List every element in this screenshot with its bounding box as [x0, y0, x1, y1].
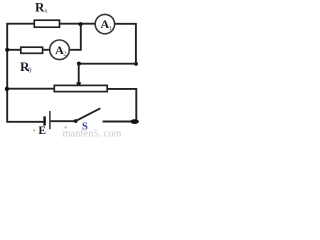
watermark speck left: [33, 129, 35, 131]
wire: wiper vertical drop: [78, 64, 80, 84]
resistor Rx: [34, 20, 59, 27]
node: bottom-right blob junction: [130, 119, 139, 124]
node: wiper corner junction: [77, 62, 81, 66]
watermark speck mid: [64, 126, 66, 128]
ammeter A1: [95, 14, 114, 33]
svg-text:x: x: [44, 7, 48, 14]
label Rx: [35, 0, 48, 14]
rheostat R (slide resistor): [54, 85, 107, 91]
svg-text:E: E: [38, 125, 46, 137]
switch S: [74, 108, 101, 123]
wire: rheostat right terminal to right rail down to battery node: [107, 89, 136, 122]
node: left rail at R0 branch: [5, 48, 9, 52]
svg-text:manfen5. com: manfen5. com: [63, 128, 122, 138]
node: junction on top wire: [79, 22, 83, 26]
resistor R0: [21, 47, 43, 53]
wire: battery to switch: [51, 120, 74, 122]
wire: branch down from junction to ammeter A2: [69, 24, 81, 50]
label R0: [20, 59, 32, 75]
ammeter A2: [50, 40, 70, 60]
battery E plates: [45, 111, 50, 129]
rheostat wiper arrowhead: [76, 82, 81, 87]
wire: R0 to A2: [43, 49, 50, 51]
wire: A1 to right rail, corner down to node: [115, 24, 136, 64]
svg-text:1: 1: [109, 25, 112, 32]
wire: left rail with top-left and bottom-left corners: [7, 24, 43, 122]
svg-text:2: 2: [63, 50, 66, 57]
node: left rail at rheostat branch: [5, 87, 9, 92]
wire: left rail to R0: [7, 49, 21, 51]
svg-text:0: 0: [28, 66, 32, 74]
wire: switch to bottom-right node: [103, 121, 132, 123]
wire: left rail to rheostat left terminal: [7, 88, 54, 90]
node: right rail to wiper wire: [134, 62, 138, 66]
wire: wiper horizontal run: [79, 63, 136, 65]
wire: Rx to ammeter A1: [60, 23, 96, 25]
